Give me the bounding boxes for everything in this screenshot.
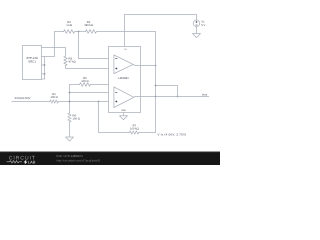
ground under V1 [193, 34, 201, 38]
op-amp A minus [115, 58, 117, 60]
vertical wire R5 to R6 [69, 85, 71, 114]
wire R7 to feedback vertical [139, 132, 156, 134]
node R2 R3 junction [78, 31, 80, 33]
node vout cross [155, 96, 157, 98]
hysteresis wire down [99, 102, 130, 133]
node branch bottom [177, 96, 179, 98]
resistor R3 [86, 30, 97, 34]
footer bar [0, 152, 220, 165]
wire input rail [12, 101, 50, 103]
sensor pin 2 wire up to rail [42, 32, 55, 57]
ground under R6 [66, 137, 74, 141]
op-amp B minus [115, 92, 117, 94]
wire R5 left leg [70, 84, 80, 86]
wire R3 to feedback corner [96, 31, 155, 33]
svg-text:100 Ω: 100 Ω [73, 118, 80, 121]
svg-text:V in (4.00V, 2.75V): V in (4.00V, 2.75V) [158, 133, 187, 137]
op-amp B triangle [114, 87, 134, 108]
node rail R6 [69, 101, 71, 103]
svg-text:100 Ω: 100 Ω [50, 96, 57, 99]
svg-text:100 kΩ: 100 kΩ [130, 127, 139, 130]
node pin3 [44, 64, 46, 66]
resistor R4 [64, 56, 67, 66]
wire R4 bottom to non-inverting input A [66, 66, 109, 69]
output B wire Vout [134, 96, 209, 99]
branch wire to Vout line [156, 86, 178, 97]
svg-text:390 kΩ: 390 kΩ [84, 24, 93, 27]
svg-text:LM358N: LM358N [118, 77, 128, 80]
sensor pin 4 stub [42, 73, 45, 75]
node rail hysteresis [98, 101, 100, 103]
wire along sensor right side [42, 57, 45, 80]
wire between R2 R3 [75, 31, 86, 33]
output A wire to feedback vertical [133, 65, 155, 66]
feedback vertical wire [155, 32, 157, 133]
node branch top [155, 85, 157, 87]
resistor R2 [64, 30, 75, 34]
wire R6 to ground [69, 122, 71, 137]
sensor U2 ZTP-148 SRC1 box [23, 46, 42, 80]
wire R5 right to box [91, 84, 109, 86]
wire V1 to ground [196, 27, 198, 34]
sensor pin 3 stub [42, 64, 45, 66]
wire inverting input B [70, 92, 109, 94]
resistor R5 [80, 83, 91, 87]
node pin4 [44, 73, 46, 75]
ground stem under package [123, 113, 125, 116]
op-amp package U1 box [109, 47, 141, 113]
resistor R1 [50, 100, 58, 103]
op-amp A triangle [114, 55, 133, 74]
svg-text:Vout: Vout [202, 93, 208, 96]
svg-text:SRC1: SRC1 [28, 60, 36, 64]
op-amp B plus [115, 101, 117, 103]
svg-text:1 kΩ: 1 kΩ [66, 24, 72, 27]
svg-text:5mV(41.00)V: 5mV(41.00)V [15, 97, 31, 100]
node B inverting [69, 92, 71, 94]
wire junction down to inverting input A [79, 32, 109, 59]
logo LAB [24, 160, 28, 165]
wire rail to non-inverting input B [58, 101, 108, 103]
svg-text:5 V: 5 V [201, 24, 205, 27]
ground under package [120, 116, 128, 120]
logo zigzag [7, 161, 23, 163]
voltage source V1 [193, 20, 200, 27]
resistor R7 [129, 131, 139, 134]
svg-text:http://circuitlab.com/c/f7pcaD: http://circuitlab.com/c/f7pcaDpba65 [57, 158, 101, 162]
supply wire V+ from source [125, 15, 197, 47]
svg-text:GND: GND [121, 109, 126, 112]
resistor R6 [68, 113, 71, 122]
node output A [155, 65, 157, 67]
wire rail top [55, 31, 64, 33]
op-amp A plus [115, 68, 117, 70]
svg-text:LAB: LAB [28, 161, 36, 165]
sensor pin 1 wire to R4 top [42, 48, 66, 57]
svg-text:100 Ω: 100 Ω [81, 80, 88, 83]
svg-text:47 kΩ: 47 kΩ [69, 61, 76, 64]
